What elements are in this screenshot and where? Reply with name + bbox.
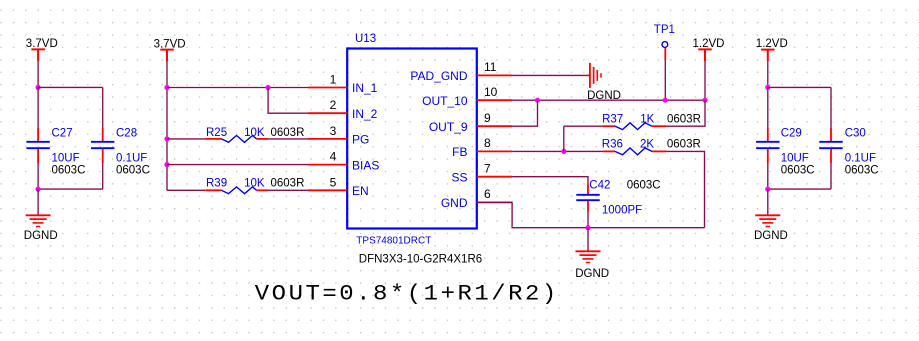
- junction node C29 bottom: [765, 187, 770, 192]
- junction node FB/R37: [561, 149, 566, 154]
- svg-text:10K: 10K: [244, 127, 265, 139]
- svg-text:2: 2: [330, 98, 337, 112]
- svg-text:DFN3X3-10-G2R4X1R6: DFN3X3-10-G2R4X1R6: [359, 253, 482, 265]
- capacitor C42 1000PF 0603C: [576, 180, 660, 217]
- wire EN row to R39: [167, 189, 205, 191]
- svg-text:10: 10: [484, 85, 498, 99]
- svg-text:0603C: 0603C: [781, 164, 815, 176]
- svg-text:0603R: 0603R: [271, 177, 305, 189]
- svg-text:VOUT=0.8*(1+R1/R2): VOUT=0.8*(1+R1/R2): [255, 280, 559, 306]
- svg-text:1: 1: [330, 72, 337, 86]
- svg-text:0603R: 0603R: [667, 139, 701, 151]
- wire PG row to R25: [167, 138, 205, 140]
- pin 9 OUT_9: [429, 111, 512, 134]
- pin 4 BIAS: [308, 150, 379, 173]
- wire top rail C27-C28: [38, 87, 103, 128]
- wire FB row: [512, 150, 603, 152]
- svg-text:0603C: 0603C: [52, 164, 86, 176]
- pin 10 OUT_10: [422, 85, 512, 108]
- wire GND net: [477, 202, 705, 227]
- wire 1.2VD down to node: [767, 61, 769, 87]
- svg-text:R25: R25: [206, 127, 227, 139]
- svg-text:6: 6: [484, 187, 491, 201]
- svg-text:R37: R37: [602, 113, 623, 125]
- svg-text:11: 11: [484, 60, 497, 74]
- wire down to ground: [37, 189, 39, 215]
- resistor R36 2K 0603R: [602, 139, 701, 155]
- pin 11 PAD_GND: [410, 60, 512, 83]
- junction node IN_1 row: [164, 85, 169, 90]
- capacitor C29: [756, 128, 814, 177]
- pin 7 SS: [451, 162, 512, 185]
- svg-text:5: 5: [330, 175, 337, 189]
- wire R36 down to GND net: [666, 151, 705, 227]
- wire down to ground (right): [767, 189, 769, 215]
- svg-text:FB: FB: [452, 145, 467, 159]
- svg-text:C42: C42: [589, 180, 610, 192]
- capacitor C28: [91, 128, 150, 177]
- junction node TP1: [663, 98, 668, 103]
- ground DGND (right): [754, 215, 788, 242]
- svg-text:0.1UF: 0.1UF: [845, 153, 876, 165]
- svg-text:OUT_9: OUT_9: [429, 120, 468, 134]
- svg-text:7: 7: [484, 162, 491, 176]
- svg-text:DGND: DGND: [575, 268, 609, 280]
- svg-text:TP1: TP1: [654, 24, 675, 36]
- svg-text:IN_1: IN_1: [352, 81, 378, 95]
- svg-text:PG: PG: [352, 133, 369, 147]
- wire bottom rail C27-C28: [38, 163, 103, 189]
- svg-text:C28: C28: [116, 128, 137, 140]
- pin 3 PG: [308, 124, 369, 147]
- junction node C27 bottom: [36, 187, 41, 192]
- junction node C29 top: [765, 85, 770, 90]
- wire IN_1 row: [167, 87, 308, 89]
- svg-text:SS: SS: [451, 171, 467, 185]
- svg-text:TPS74801DRCT: TPS74801DRCT: [356, 236, 431, 247]
- svg-text:10UF: 10UF: [52, 153, 80, 165]
- wire R37 to OUT node: [666, 100, 705, 126]
- svg-text:DGND: DGND: [24, 230, 58, 242]
- pin 1 IN_1: [308, 72, 378, 95]
- wire IN_2 branch: [268, 88, 308, 114]
- svg-text:10UF: 10UF: [781, 153, 809, 165]
- svg-text:0603R: 0603R: [271, 127, 305, 139]
- wire top rail C29-C30: [768, 87, 831, 128]
- svg-text:R39: R39: [206, 177, 227, 189]
- svg-text:1.2VD: 1.2VD: [756, 38, 788, 50]
- wire 3.7VD down to node: [37, 61, 39, 87]
- svg-text:4: 4: [330, 150, 337, 164]
- wire OUT_9 to OUT_10: [512, 100, 537, 126]
- svg-text:0603C: 0603C: [116, 164, 150, 176]
- wire bottom rail C29-C30: [768, 163, 831, 189]
- junction node PG row: [164, 136, 169, 141]
- power port 3.7VD (left): [26, 38, 58, 61]
- junction node C42/GND: [585, 225, 590, 230]
- power port 3.7VD (second): [154, 38, 186, 61]
- svg-text:U13: U13: [355, 33, 376, 45]
- wire R39 to EN pin: [268, 189, 308, 191]
- junction node C27 top: [36, 85, 41, 90]
- svg-text:3.7VD: 3.7VD: [26, 38, 58, 50]
- wire OUT_10 net: [512, 99, 705, 101]
- junction node IN_2 branch: [266, 85, 271, 90]
- svg-text:BIAS: BIAS: [352, 158, 379, 172]
- svg-text:2K: 2K: [640, 139, 654, 151]
- svg-text:OUT_10: OUT_10: [422, 94, 468, 108]
- wire FB up to R37: [563, 126, 565, 151]
- svg-text:0603C: 0603C: [845, 164, 879, 176]
- wire C42 down to GND net: [587, 212, 589, 228]
- svg-text:0603C: 0603C: [627, 180, 661, 192]
- pin 5 EN: [308, 175, 369, 198]
- svg-text:0603R: 0603R: [667, 113, 701, 125]
- svg-text:0.1UF: 0.1UF: [116, 153, 147, 165]
- svg-text:DGND: DGND: [754, 230, 788, 242]
- wire R37 row: [564, 125, 603, 127]
- wire PAD_GND to ground: [512, 74, 587, 76]
- svg-text:PAD_GND: PAD_GND: [410, 69, 467, 83]
- junction node 1.2VD/OUT: [702, 98, 707, 103]
- resistor R25 10K 0603R: [205, 127, 304, 143]
- power port 1.2VD (right): [756, 38, 788, 61]
- svg-text:1000PF: 1000PF: [602, 204, 642, 216]
- svg-text:1.2VD: 1.2VD: [693, 38, 725, 50]
- pin 2 IN_2: [308, 98, 378, 121]
- wire R25 to PG pin: [268, 138, 308, 140]
- pin 6 GND: [441, 187, 512, 210]
- svg-text:C29: C29: [781, 128, 802, 140]
- pin 8 FB: [452, 136, 512, 159]
- svg-text:GND: GND: [441, 196, 468, 210]
- svg-text:EN: EN: [352, 184, 369, 198]
- wire 3.7VD second vertical trunk: [166, 61, 168, 190]
- junction node OUT_9 branch: [535, 98, 540, 103]
- op-amp U13 TPS74801DRCT box: [347, 33, 482, 265]
- svg-text:9: 9: [484, 111, 491, 125]
- svg-text:10K: 10K: [244, 177, 265, 189]
- test point TP1: [654, 24, 675, 60]
- power port 1.2VD (middle): [693, 38, 725, 61]
- svg-text:C27: C27: [52, 128, 73, 140]
- capacitor C30: [819, 128, 878, 177]
- wire GND net to ground: [587, 228, 589, 252]
- svg-text:3: 3: [330, 124, 337, 138]
- ground DGND (under C42): [575, 251, 609, 280]
- svg-text:R36: R36: [602, 139, 623, 151]
- wire BIAS row: [167, 164, 308, 166]
- wire TP1 down: [664, 60, 666, 100]
- wire 1.2VD down: [704, 61, 706, 100]
- ground DGND (left): [24, 215, 58, 242]
- svg-text:IN_2: IN_2: [352, 107, 378, 121]
- resistor R37 1K 0603R: [602, 113, 701, 129]
- svg-text:C30: C30: [845, 128, 866, 140]
- svg-text:8: 8: [484, 136, 491, 150]
- junction node BIAS row: [164, 162, 169, 167]
- ground DGND rotated (PAD_GND): [587, 63, 621, 102]
- wire SS row to C42: [512, 177, 588, 185]
- svg-text:1K: 1K: [640, 113, 654, 125]
- capacitor C27: [26, 128, 85, 177]
- resistor R39 10K 0603R: [205, 177, 304, 193]
